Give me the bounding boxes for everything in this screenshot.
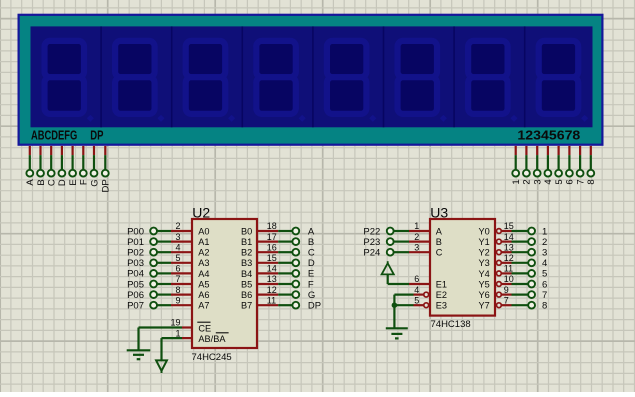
terminal C (display segment bus): [47, 170, 58, 186]
U2 pin B5 stub, pin number 13: [257, 274, 278, 284]
U2 pin label A6: [198, 290, 209, 300]
digit 3: [172, 26, 236, 127]
svg-text:A5: A5: [198, 279, 209, 289]
svg-text:P02: P02: [127, 248, 144, 259]
wire P07 to U2 pin A7: [157, 304, 171, 306]
svg-text:18: 18: [267, 221, 277, 231]
terminal G (display segment bus): [89, 170, 100, 187]
svg-text:14: 14: [504, 232, 514, 242]
terminal DP (display segment bus): [101, 170, 112, 193]
svg-text:6: 6: [414, 274, 419, 284]
svg-text:5: 5: [414, 295, 419, 305]
wire U2 B0 to terminal A: [278, 230, 292, 232]
U2 pin B7 stub, pin number 11: [257, 295, 278, 305]
U2 pin A6 stub, pin number 8: [171, 285, 192, 295]
svg-text:P01: P01: [127, 237, 144, 248]
IC U2 74HC245 body: [192, 219, 257, 348]
svg-text:Y4: Y4: [479, 269, 490, 279]
U2 pin label A2: [198, 248, 209, 258]
U2 pin AB/BA stub, pin number 1: [175, 328, 192, 338]
wire U3 Y2 to terminal 3: [512, 251, 529, 253]
U3 pin E3 stub with inversion bubble, pin number 5: [414, 295, 429, 307]
digit 7: [454, 26, 517, 127]
7-segment display module DS1 (8-digit blue 7SEG-MPX8): [19, 15, 603, 145]
U2 pin B1 stub, pin number 17: [257, 232, 278, 242]
U3 pin label E2: [436, 290, 447, 300]
digit 6: [384, 26, 448, 127]
U2 pin B0 stub, pin number 18: [257, 221, 278, 231]
svg-text:1: 1: [414, 221, 419, 231]
wire U3 Y5 to terminal 6: [512, 283, 529, 285]
ground symbol (U3 E2/E3): [386, 328, 408, 338]
svg-text:8: 8: [542, 301, 547, 312]
svg-text:9: 9: [504, 285, 509, 295]
svg-text:6: 6: [565, 179, 576, 184]
svg-text:12345678: 12345678: [517, 127, 580, 142]
svg-text:4: 4: [542, 258, 547, 269]
U2 pin B3 stub, pin number 15: [257, 253, 278, 263]
svg-text:Y2: Y2: [479, 248, 490, 258]
svg-text:2: 2: [522, 179, 533, 184]
U3 pin label Y5: [479, 279, 490, 289]
svg-text:U2: U2: [192, 205, 210, 221]
wire display pin G to terminal G: [93, 146, 95, 170]
svg-text:A2: A2: [198, 248, 209, 258]
wire display pin E to terminal E: [71, 146, 73, 170]
svg-text:DP: DP: [101, 179, 112, 192]
svg-text:B1: B1: [241, 237, 252, 247]
svg-text:AB/BA: AB/BA: [198, 334, 226, 344]
svg-text:12: 12: [504, 253, 514, 263]
U2 pin label A4: [198, 269, 209, 279]
U3 pin label Y4: [479, 269, 490, 279]
terminal 4 (right of U3): [528, 258, 547, 269]
wire display pin C to terminal C: [50, 146, 52, 170]
wire U2 B1 to terminal B: [278, 241, 292, 243]
U3 pin label Y3: [479, 258, 490, 268]
svg-text:8: 8: [586, 179, 597, 184]
svg-text:P04: P04: [127, 269, 144, 280]
wire P02 to U2 pin A2: [157, 251, 171, 253]
terminal 5 (digit select): [554, 170, 565, 185]
terminal A (display segment bus): [25, 170, 36, 186]
svg-text:B7: B7: [241, 301, 252, 311]
svg-text:C: C: [47, 179, 58, 186]
terminal P05: [127, 279, 157, 290]
svg-text:B4: B4: [241, 269, 252, 279]
wire display pin F to terminal F: [82, 146, 84, 170]
wire display pin D to terminal D: [61, 146, 63, 170]
svg-text:E2: E2: [436, 290, 447, 300]
svg-text:A0: A0: [198, 226, 209, 236]
IC U3 74HC138 body: [430, 219, 495, 316]
svg-text:13: 13: [267, 274, 277, 284]
svg-text:E1: E1: [436, 279, 447, 289]
U3 pin label Y6: [479, 290, 490, 300]
svg-text:A3: A3: [198, 258, 209, 268]
U2 pin label B3: [241, 258, 252, 268]
svg-text:Y3: Y3: [479, 258, 490, 268]
U2 pin label B4: [241, 269, 252, 279]
svg-text:A: A: [25, 179, 36, 186]
svg-text:7: 7: [575, 179, 586, 184]
svg-text:B5: B5: [241, 279, 252, 289]
U3 pin label Y2: [479, 248, 490, 258]
U2 pin label B1: [241, 237, 252, 247]
wire display pin digit8 to terminal 8: [590, 146, 592, 170]
terminal 5 (right of U3): [528, 269, 547, 280]
terminal P23: [363, 237, 393, 248]
wire P22 to U3 pin A: [394, 230, 410, 232]
svg-text:B3: B3: [241, 258, 252, 268]
wire U2 B2 to terminal C: [278, 251, 292, 253]
terminal C (right of U2): [292, 248, 315, 259]
svg-text:16: 16: [267, 242, 277, 252]
svg-text:D: D: [308, 258, 315, 269]
svg-text:B: B: [308, 237, 314, 248]
svg-text:15: 15: [267, 253, 277, 263]
wire U2 B7 to terminal DP: [278, 304, 292, 306]
terminal P01: [127, 237, 157, 248]
U3 pin A stub, pin number 1: [409, 221, 430, 231]
wire U2 CE to ground: [139, 328, 183, 351]
wire power terminal to U3 E1: [388, 275, 409, 285]
svg-text:G: G: [308, 290, 315, 301]
wire P23 to U3 pin B: [394, 241, 410, 243]
svg-text:15: 15: [504, 221, 514, 231]
U3 value label 74HC138: [431, 319, 471, 330]
svg-text:A: A: [308, 226, 315, 237]
svg-text:19: 19: [170, 318, 180, 328]
terminal P24: [363, 248, 393, 259]
wire U2 B5 to terminal F: [278, 283, 292, 285]
svg-text:D: D: [57, 179, 68, 186]
svg-text:P24: P24: [363, 248, 380, 259]
U2 pin CE stub, pin number 19: [170, 318, 192, 328]
terminal 6 (right of U3): [528, 279, 547, 290]
U3 pin label A: [436, 226, 443, 236]
power terminal arrow (up) at U3 E1: [382, 261, 394, 274]
svg-text:C: C: [436, 248, 443, 258]
svg-text:P00: P00: [127, 226, 144, 237]
wire display pin digit5 to terminal 5: [557, 146, 559, 170]
svg-text:4: 4: [543, 179, 554, 184]
svg-text:B6: B6: [241, 290, 252, 300]
U2 pin A5 stub, pin number 7: [171, 274, 192, 284]
svg-text:P05: P05: [127, 279, 144, 290]
wire U2 AB/BA to power terminal: [162, 338, 183, 360]
svg-text:P06: P06: [127, 290, 144, 301]
svg-text:G: G: [89, 179, 100, 186]
U2 pin label AB/BA (BA overlined): [198, 333, 228, 344]
U2 pin label A1: [198, 237, 209, 247]
U2 pin label B5: [241, 279, 252, 289]
U2 pin B4 stub, pin number 14: [257, 264, 278, 274]
svg-text:7: 7: [175, 274, 180, 284]
svg-text:A4: A4: [198, 269, 209, 279]
svg-text:Y5: Y5: [479, 279, 490, 289]
terminal P02: [127, 248, 157, 259]
wire U2 B3 to terminal D: [278, 262, 292, 264]
svg-text:4: 4: [414, 285, 419, 295]
svg-text:7: 7: [542, 290, 547, 301]
svg-text:1: 1: [511, 179, 522, 184]
U2 pin label CE (active low, overline): [197, 322, 211, 333]
wire U3 E2 to E3 to ground: [394, 295, 413, 329]
wire U3 Y1 to terminal 2: [512, 241, 529, 243]
svg-text:12: 12: [267, 285, 277, 295]
wire P06 to U2 pin A6: [157, 294, 171, 296]
U3 pin label E3: [436, 301, 447, 311]
U3 pin label C: [436, 248, 443, 258]
svg-text:17: 17: [267, 232, 277, 242]
svg-text:CE: CE: [198, 323, 211, 333]
terminal F (right of U2): [292, 279, 314, 290]
terminal D (display segment bus): [57, 170, 68, 186]
terminal 8 (digit select): [586, 170, 597, 185]
svg-text:E: E: [308, 269, 314, 280]
terminal B (display segment bus): [36, 170, 47, 186]
junction dot at E3: [392, 302, 398, 308]
wire display pin digit3 to terminal 3: [536, 146, 538, 170]
svg-text:A7: A7: [198, 301, 209, 311]
U2 pin label A0: [198, 226, 209, 236]
terminal 3 (digit select): [533, 170, 544, 185]
svg-text:Y0: Y0: [479, 226, 490, 236]
wire P03 to U2 pin A3: [157, 262, 171, 264]
svg-text:13: 13: [504, 242, 514, 252]
wire U3 Y6 to terminal 7: [512, 294, 529, 296]
svg-text:3: 3: [533, 179, 544, 184]
U2 pin A7 stub, pin number 9: [171, 295, 192, 305]
U3 pin Y3 stub with inversion bubble, pin number 12: [497, 253, 514, 265]
U3 pin label Y0: [479, 226, 490, 236]
svg-text:B: B: [436, 237, 442, 247]
U2 pin label B0: [241, 226, 252, 236]
svg-text:B0: B0: [241, 226, 252, 236]
svg-text:P03: P03: [127, 258, 144, 269]
wire P24 to U3 pin C: [394, 251, 410, 253]
wire U2 B4 to terminal E: [278, 272, 292, 274]
svg-text:P07: P07: [127, 301, 144, 312]
svg-text:2: 2: [542, 237, 547, 248]
terminal 1 (digit select): [511, 170, 522, 185]
wire display pin digit2 to terminal 2: [525, 146, 527, 170]
terminal 4 (digit select): [543, 170, 554, 185]
U2 pin label B2: [241, 248, 252, 258]
U2 pin label B7: [241, 301, 252, 311]
wire display pin digit1 to terminal 1: [515, 146, 517, 170]
wire display pin digit4 to terminal 4: [547, 146, 549, 170]
U2 pin label A5: [198, 279, 209, 289]
svg-text:P22: P22: [363, 226, 380, 237]
wire U3 Y4 to terminal 5: [512, 272, 529, 274]
svg-text:8: 8: [175, 285, 180, 295]
svg-text:1: 1: [542, 226, 547, 237]
svg-text:DP: DP: [90, 127, 104, 142]
U3 pin E1 stub, pin number 6: [409, 274, 430, 284]
U3 pin Y7 stub with inversion bubble, pin number 7: [497, 295, 512, 307]
wire U2 B6 to terminal G: [278, 294, 292, 296]
svg-text:3: 3: [542, 248, 547, 259]
svg-text:A: A: [436, 226, 443, 236]
terminal 2 (right of U3): [528, 237, 547, 248]
terminal E (right of U2): [292, 269, 314, 280]
terminal 7 (digit select): [575, 170, 586, 185]
svg-text:E3: E3: [436, 301, 447, 311]
U2 pin A3 stub, pin number 5: [171, 253, 192, 263]
power terminal arrow (down) at U2 AB/BA: [156, 360, 167, 373]
wire U3 Y3 to terminal 4: [512, 262, 529, 264]
U2 pin B2 stub, pin number 16: [257, 242, 278, 252]
wire U3 Y0 to terminal 1: [512, 230, 529, 232]
wire display pin A to terminal A: [29, 146, 31, 170]
U3 pin Y6 stub with inversion bubble, pin number 9: [497, 285, 512, 297]
U3 pin E2 stub with inversion bubble, pin number 4: [414, 285, 429, 297]
wire P01 to U2 pin A1: [157, 241, 171, 243]
svg-text:F: F: [79, 179, 90, 185]
svg-text:11: 11: [504, 264, 513, 274]
U2 reference label: [192, 205, 210, 221]
svg-text:U3: U3: [430, 205, 448, 221]
U3 pin label Y1: [479, 237, 490, 247]
terminal B (right of U2): [292, 237, 314, 248]
U2 pin A1 stub, pin number 3: [171, 232, 192, 242]
svg-text:11: 11: [267, 295, 276, 305]
svg-text:Y1: Y1: [479, 237, 490, 247]
terminal F (display segment bus): [79, 170, 90, 185]
U2 pin B6 stub, pin number 12: [257, 285, 278, 295]
svg-text:6: 6: [542, 279, 547, 290]
U2 pin label A7: [198, 301, 209, 311]
terminal P06: [127, 290, 157, 301]
svg-text:5: 5: [175, 253, 180, 263]
terminal P03: [127, 258, 157, 269]
svg-text:14: 14: [267, 264, 277, 274]
U3 reference label: [430, 205, 448, 221]
U2 pin A0 stub, pin number 2: [171, 221, 192, 231]
digit 5: [313, 26, 377, 127]
terminal A (right of U2): [292, 226, 315, 237]
terminal 3 (right of U3): [528, 248, 547, 259]
U3 pin label B: [436, 237, 442, 247]
terminal P22: [363, 226, 393, 237]
svg-text:2: 2: [175, 221, 180, 231]
terminal P04: [127, 269, 157, 280]
digit 2: [101, 26, 165, 127]
terminal P00: [127, 226, 157, 237]
U3 pin Y2 stub with inversion bubble, pin number 13: [497, 242, 514, 254]
U3 pin Y5 stub with inversion bubble, pin number 10: [497, 274, 514, 286]
svg-text:P23: P23: [363, 237, 380, 248]
terminal 1 (right of U3): [528, 226, 547, 237]
svg-text:7: 7: [504, 295, 509, 305]
terminal E (display segment bus): [68, 170, 79, 186]
svg-text:Y7: Y7: [479, 301, 490, 311]
terminal 7 (right of U3): [528, 290, 547, 301]
svg-text:ABCDEFG: ABCDEFG: [31, 127, 77, 142]
svg-text:5: 5: [542, 269, 547, 280]
U2 value label 74HC245: [192, 352, 232, 363]
U3 pin C stub, pin number 3: [409, 242, 430, 252]
U3 pin Y4 stub with inversion bubble, pin number 11: [497, 264, 514, 276]
wire P05 to U2 pin A5: [157, 283, 171, 285]
wire display pin digit7 to terminal 7: [579, 146, 581, 170]
digit 8: [525, 26, 589, 127]
svg-text:74HC245: 74HC245: [192, 352, 232, 363]
U2 pin A2 stub, pin number 4: [171, 242, 192, 252]
wire U3 Y7 to terminal 8: [512, 304, 529, 306]
svg-text:1: 1: [175, 328, 180, 338]
U3 pin Y0 stub with inversion bubble, pin number 15: [497, 221, 514, 233]
svg-text:F: F: [308, 279, 314, 290]
wire display pin digit6 to terminal 6: [568, 146, 570, 170]
U3 pin label Y7: [479, 301, 490, 311]
svg-text:74HC138: 74HC138: [431, 319, 471, 330]
svg-text:2: 2: [414, 232, 419, 242]
svg-text:A6: A6: [198, 290, 209, 300]
svg-text:C: C: [308, 248, 315, 259]
terminal 6 (digit select): [565, 170, 576, 185]
U3 pin B stub, pin number 2: [409, 232, 430, 242]
U2 pin label A3: [198, 258, 209, 268]
U2 pin A4 stub, pin number 6: [171, 264, 192, 274]
svg-text:4: 4: [175, 242, 180, 252]
wire P04 to U2 pin A4: [157, 272, 171, 274]
svg-text:10: 10: [504, 274, 514, 284]
terminal 8 (right of U3): [528, 301, 547, 312]
terminal D (right of U2): [292, 258, 315, 269]
svg-text:A1: A1: [198, 237, 209, 247]
svg-text:5: 5: [554, 179, 565, 184]
terminal P07: [127, 301, 157, 312]
ground symbol (U2 CE): [127, 350, 151, 359]
digit 4: [242, 26, 305, 127]
svg-text:3: 3: [414, 242, 419, 252]
svg-text:DP: DP: [308, 301, 321, 312]
svg-text:E: E: [68, 179, 79, 185]
terminal DP (right of U2): [292, 301, 321, 312]
digit 1: [45, 41, 95, 122]
svg-text:B2: B2: [241, 248, 252, 258]
U3 pin label E1: [436, 279, 447, 289]
terminal G (right of U2): [292, 290, 315, 301]
terminal 2 (digit select): [522, 170, 533, 185]
svg-text:6: 6: [175, 264, 180, 274]
svg-text:9: 9: [175, 295, 180, 305]
svg-text:3: 3: [175, 232, 180, 242]
svg-text:B: B: [36, 179, 47, 185]
U2 pin label B6: [241, 290, 252, 300]
wire display pin B to terminal B: [39, 146, 41, 170]
U3 pin Y1 stub with inversion bubble, pin number 14: [497, 232, 514, 244]
wire display pin DP to terminal DP: [104, 146, 106, 170]
wire P00 to U2 pin A0: [157, 230, 171, 232]
svg-text:Y6: Y6: [479, 290, 490, 300]
